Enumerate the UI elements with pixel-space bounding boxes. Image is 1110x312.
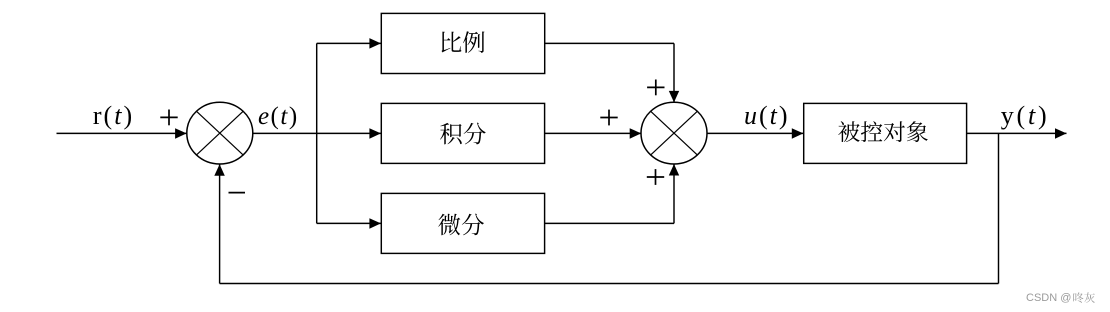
svg-text:r(t): r(t) xyxy=(93,101,134,130)
svg-text:y(t): y(t) xyxy=(1001,101,1050,130)
svg-text:e(t): e(t) xyxy=(258,103,299,130)
svg-text:CSDN @: CSDN @ xyxy=(1026,292,1071,304)
svg-text:u(t): u(t) xyxy=(744,101,790,130)
